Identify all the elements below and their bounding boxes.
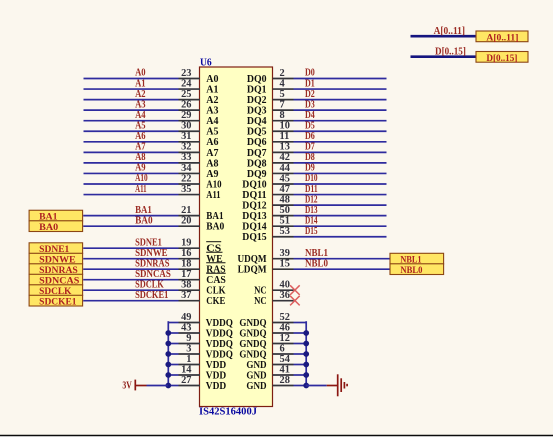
svg-text:45: 45	[280, 173, 290, 184]
svg-text:3: 3	[186, 343, 191, 354]
svg-text:BA1: BA1	[206, 211, 223, 222]
svg-text:SDCKE1: SDCKE1	[39, 296, 77, 306]
svg-text:D3: D3	[305, 99, 315, 110]
svg-text:A4: A4	[135, 110, 146, 121]
svg-text:27: 27	[181, 375, 191, 386]
svg-text:A0: A0	[135, 68, 146, 79]
svg-text:DQ7: DQ7	[247, 148, 267, 159]
svg-text:DQ9: DQ9	[247, 169, 267, 180]
svg-text:30: 30	[181, 121, 191, 132]
svg-text:7: 7	[280, 99, 285, 110]
svg-text:14: 14	[181, 364, 191, 375]
svg-text:D1: D1	[305, 78, 315, 89]
svg-text:CKE: CKE	[206, 296, 225, 307]
svg-text:DQ12: DQ12	[242, 201, 266, 212]
svg-text:1: 1	[186, 354, 191, 365]
svg-text:VDD: VDD	[206, 370, 226, 381]
svg-text:VDDQ: VDDQ	[206, 318, 233, 329]
svg-text:19: 19	[181, 238, 191, 249]
svg-text:A4: A4	[206, 116, 218, 127]
svg-text:BA1: BA1	[135, 205, 152, 216]
svg-text:GNDQ: GNDQ	[239, 318, 266, 329]
svg-text:A3: A3	[135, 99, 146, 110]
svg-text:50: 50	[280, 205, 290, 216]
svg-text:BA0: BA0	[135, 215, 153, 226]
svg-text:34: 34	[181, 163, 191, 174]
svg-text:VDDQ: VDDQ	[206, 349, 233, 360]
svg-text:DQ8: DQ8	[247, 158, 267, 169]
svg-text:DQ5: DQ5	[247, 127, 267, 138]
svg-text:SDNWE: SDNWE	[39, 254, 75, 264]
svg-text:43: 43	[181, 322, 191, 333]
svg-text:53: 53	[280, 226, 290, 237]
svg-text:LDQM: LDQM	[238, 265, 267, 276]
svg-text:GNDQ: GNDQ	[239, 349, 266, 360]
svg-text:GNDQ: GNDQ	[239, 328, 266, 339]
svg-text:VDD: VDD	[206, 360, 226, 371]
svg-text:VDDQ: VDDQ	[206, 328, 233, 339]
svg-text:4: 4	[280, 78, 285, 89]
svg-text:D2: D2	[305, 89, 315, 100]
svg-text:2: 2	[280, 68, 285, 79]
svg-text:A5: A5	[135, 120, 146, 131]
svg-text:GND: GND	[246, 381, 266, 392]
svg-text:A[0..11]: A[0..11]	[434, 26, 465, 37]
svg-text:DQ4: DQ4	[247, 116, 267, 127]
svg-text:D[0..15]: D[0..15]	[435, 46, 466, 57]
svg-text:22: 22	[181, 173, 191, 184]
svg-text:NBL0: NBL0	[305, 258, 328, 269]
svg-text:SDNE1: SDNE1	[135, 237, 162, 248]
svg-text:NBL1: NBL1	[400, 254, 422, 264]
svg-text:DQ2: DQ2	[247, 95, 267, 106]
svg-text:D15: D15	[305, 226, 318, 237]
svg-text:6: 6	[280, 343, 285, 354]
svg-text:VDDQ: VDDQ	[206, 339, 233, 350]
svg-text:D12: D12	[305, 194, 318, 205]
svg-text:D11: D11	[305, 184, 318, 195]
svg-text:SDCKE1: SDCKE1	[135, 290, 168, 301]
svg-text:SDNCAS: SDNCAS	[39, 275, 79, 285]
svg-text:11: 11	[280, 131, 290, 142]
svg-text:A6: A6	[206, 137, 218, 148]
svg-text:9: 9	[186, 333, 191, 344]
svg-text:47: 47	[280, 184, 290, 195]
svg-text:GNDQ: GNDQ	[239, 339, 266, 350]
svg-text:D6: D6	[305, 131, 315, 142]
svg-text:BA0: BA0	[206, 222, 224, 233]
svg-text:CS: CS	[206, 244, 221, 255]
svg-text:NC: NC	[254, 286, 267, 297]
svg-text:40: 40	[280, 280, 290, 291]
svg-text:SDNCAS: SDNCAS	[135, 269, 171, 280]
svg-text:A10: A10	[206, 179, 221, 190]
svg-text:42: 42	[280, 152, 290, 163]
svg-text:DQ10: DQ10	[242, 179, 266, 190]
svg-text:A10: A10	[135, 173, 148, 184]
svg-text:25: 25	[181, 89, 191, 100]
svg-text:21: 21	[181, 205, 191, 216]
svg-text:D[0..15]: D[0..15]	[486, 53, 517, 63]
svg-text:D14: D14	[305, 215, 318, 226]
svg-text:A9: A9	[135, 163, 146, 174]
svg-text:A5: A5	[206, 127, 218, 138]
svg-text:20: 20	[181, 216, 191, 227]
svg-text:A2: A2	[206, 95, 218, 106]
svg-text:D4: D4	[305, 110, 315, 121]
svg-text:SDCLK: SDCLK	[135, 279, 164, 290]
svg-text:A6: A6	[135, 131, 146, 142]
svg-text:23: 23	[181, 68, 191, 79]
svg-text:28: 28	[280, 375, 290, 386]
svg-text:GND: GND	[246, 360, 266, 371]
svg-text:UDQM: UDQM	[238, 254, 267, 265]
svg-text:D8: D8	[305, 152, 315, 163]
svg-text:13: 13	[280, 142, 290, 153]
svg-text:WE: WE	[206, 254, 222, 265]
svg-text:D9: D9	[305, 163, 315, 174]
svg-text:24: 24	[181, 78, 191, 89]
svg-text:52: 52	[280, 312, 290, 323]
svg-text:CLK: CLK	[206, 286, 225, 297]
svg-text:5: 5	[280, 89, 285, 100]
svg-text:36: 36	[280, 290, 290, 301]
svg-text:48: 48	[280, 194, 290, 205]
svg-text:DQ6: DQ6	[247, 137, 267, 148]
svg-text:D7: D7	[305, 142, 315, 153]
svg-text:D13: D13	[305, 205, 318, 216]
svg-text:A11: A11	[206, 190, 220, 201]
svg-text:A3: A3	[206, 106, 218, 117]
svg-text:DQ0: DQ0	[247, 74, 267, 85]
svg-text:SDNE1: SDNE1	[39, 244, 70, 254]
svg-text:SDNRAS: SDNRAS	[135, 258, 170, 269]
svg-text:46: 46	[280, 322, 290, 333]
svg-text:VDD: VDD	[206, 381, 226, 392]
svg-text:SDCLK: SDCLK	[39, 286, 72, 296]
svg-text:D0: D0	[305, 68, 315, 79]
svg-text:31: 31	[181, 131, 191, 142]
svg-text:SDNWE: SDNWE	[135, 248, 168, 259]
svg-text:15: 15	[280, 259, 290, 270]
svg-text:32: 32	[181, 142, 191, 153]
svg-text:A1: A1	[206, 84, 218, 95]
svg-text:26: 26	[181, 99, 191, 110]
svg-text:49: 49	[181, 312, 191, 323]
svg-text:CAS: CAS	[206, 275, 226, 286]
svg-text:A8: A8	[206, 158, 218, 169]
svg-text:NBL1: NBL1	[305, 248, 328, 259]
svg-text:D5: D5	[305, 120, 315, 131]
svg-text:16: 16	[181, 248, 191, 259]
svg-text:DQ11: DQ11	[242, 190, 266, 201]
svg-text:35: 35	[181, 184, 191, 195]
svg-text:44: 44	[280, 163, 290, 174]
svg-text:A8: A8	[135, 152, 146, 163]
svg-text:DQ3: DQ3	[247, 106, 267, 117]
svg-text:A9: A9	[206, 169, 218, 180]
svg-text:SDNRAS: SDNRAS	[39, 265, 78, 275]
svg-text:DQ14: DQ14	[242, 222, 266, 233]
svg-text:D10: D10	[305, 173, 318, 184]
svg-text:A7: A7	[206, 148, 218, 159]
svg-text:3V: 3V	[122, 380, 132, 391]
svg-text:41: 41	[280, 364, 290, 375]
svg-text:U6: U6	[200, 57, 212, 68]
svg-text:37: 37	[181, 290, 191, 301]
svg-text:NC: NC	[254, 296, 267, 307]
svg-text:IS42S16400J: IS42S16400J	[199, 406, 257, 417]
svg-text:39: 39	[280, 248, 290, 259]
svg-text:17: 17	[181, 269, 191, 280]
svg-text:18: 18	[181, 259, 191, 270]
svg-text:38: 38	[181, 280, 191, 291]
svg-text:12: 12	[280, 333, 290, 344]
svg-text:10: 10	[280, 121, 290, 132]
svg-text:DQ13: DQ13	[242, 211, 266, 222]
svg-text:DQ1: DQ1	[247, 84, 267, 95]
svg-text:54: 54	[280, 354, 290, 365]
svg-text:BA1: BA1	[39, 211, 58, 221]
svg-text:33: 33	[181, 152, 191, 163]
svg-text:A[0..11]: A[0..11]	[486, 32, 518, 42]
svg-text:8: 8	[280, 110, 285, 121]
svg-text:RAS: RAS	[206, 265, 225, 276]
svg-text:BA0: BA0	[39, 222, 58, 232]
svg-text:DQ15: DQ15	[242, 232, 266, 243]
svg-text:GND: GND	[246, 370, 266, 381]
svg-text:51: 51	[280, 216, 290, 227]
svg-text:29: 29	[181, 110, 191, 121]
svg-text:NBL0: NBL0	[400, 265, 422, 275]
svg-text:A7: A7	[135, 142, 146, 153]
svg-text:A1: A1	[135, 78, 146, 89]
svg-text:A11: A11	[135, 184, 147, 195]
svg-text:A2: A2	[135, 89, 146, 100]
svg-text:A0: A0	[206, 74, 218, 85]
